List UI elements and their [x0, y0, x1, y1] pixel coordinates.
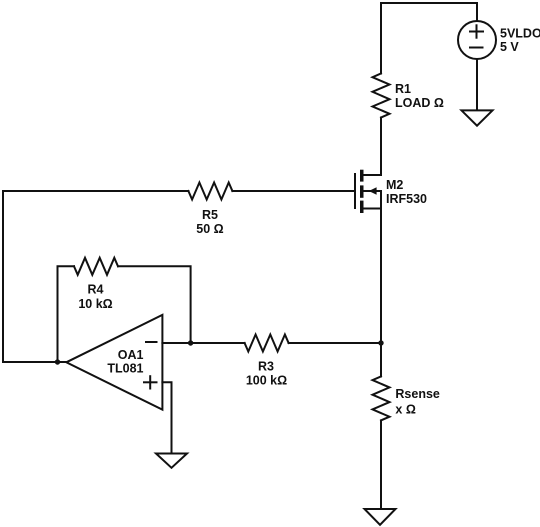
svg-text:50 Ω: 50 Ω — [196, 222, 223, 236]
resistor R4 — [74, 258, 118, 275]
label 10 kohm value — [78, 297, 112, 311]
node junction output and R4 — [55, 359, 60, 364]
label IRF530 value — [386, 192, 427, 206]
label R3 name — [258, 359, 274, 373]
label R1 name — [395, 82, 411, 96]
wire V+ rail down to R1 — [380, 3, 382, 74]
transistor M2 IRF530 nmos — [355, 170, 381, 213]
label x ohm value — [395, 402, 415, 416]
svg-text:TL081: TL081 — [107, 362, 143, 376]
label 100 kohm value — [246, 374, 287, 388]
wire non-inverting input stub — [162, 382, 171, 453]
ground at op-amp non-inverting input — [156, 454, 187, 468]
wire rail down to Rsense — [380, 343, 382, 376]
wire top rail from drain branch to voltage source — [381, 2, 477, 4]
op-amp OA1 TL081 — [66, 315, 162, 410]
svg-text:R4: R4 — [88, 282, 104, 296]
svg-text:100 kΩ: 100 kΩ — [246, 374, 287, 388]
svg-text:Rsense: Rsense — [395, 387, 440, 401]
wire gate lead from left rail to R5 — [3, 190, 188, 192]
svg-text:5VLDO: 5VLDO — [500, 27, 540, 41]
resistor R3 — [245, 335, 289, 352]
label M2 name — [386, 178, 403, 192]
label OA1 name — [118, 348, 144, 362]
resistor Rsense — [373, 376, 390, 420]
wire Rsense to ground — [380, 420, 382, 509]
wire M2 source rail down to R3 node — [380, 191, 382, 343]
node junction R3 and source rail — [378, 340, 383, 345]
wire op-amp output to left rail — [3, 361, 67, 363]
label 5VLDO name — [500, 27, 540, 41]
svg-text:5 V: 5 V — [500, 40, 519, 54]
resistor R5 — [188, 183, 232, 200]
label R5 name — [202, 208, 218, 222]
ground below voltage source — [462, 110, 493, 125]
wire R4 right branch down to inverting input — [118, 266, 191, 343]
wire R3 to source rail — [289, 342, 381, 344]
svg-text:R3: R3 — [258, 359, 274, 373]
svg-text:10 kΩ: 10 kΩ — [78, 297, 112, 311]
label 5 V value — [500, 40, 519, 54]
label R4 name — [88, 282, 104, 296]
wire inverting input to R3 — [162, 342, 244, 344]
wire R1 bottom to M2 drain — [380, 118, 382, 176]
resistor R1 — [373, 74, 390, 118]
label Rsense name — [395, 387, 440, 401]
voltage source V1 5VLDO — [458, 3, 496, 110]
svg-text:IRF530: IRF530 — [386, 192, 427, 206]
wire R4 left branch up from output node — [58, 266, 75, 362]
label LOAD ohm value — [395, 96, 444, 110]
wire left feedback rail down — [2, 191, 4, 362]
label 50 ohm value — [196, 222, 223, 236]
svg-text:OA1: OA1 — [118, 348, 144, 362]
svg-text:R5: R5 — [202, 208, 218, 222]
svg-text:x Ω: x Ω — [395, 402, 415, 416]
wire R5 to M2 gate — [232, 190, 355, 192]
svg-text:M2: M2 — [386, 178, 403, 192]
label TL081 value — [107, 362, 143, 376]
ground at bottom of Rsense — [365, 509, 396, 525]
svg-text:LOAD Ω: LOAD Ω — [395, 96, 444, 110]
node junction R4 and inverting input — [188, 340, 193, 345]
svg-text:R1: R1 — [395, 82, 411, 96]
